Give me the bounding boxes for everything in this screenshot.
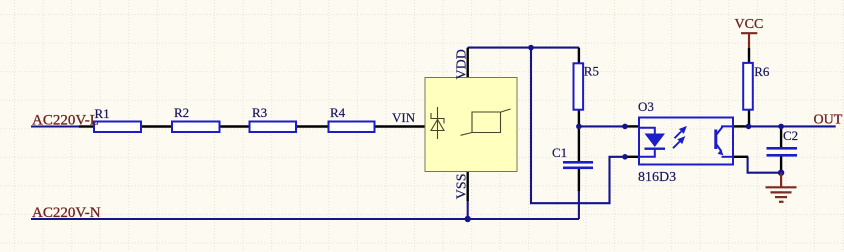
svg-text:C1: C1 bbox=[552, 145, 567, 160]
svg-text:O3: O3 bbox=[638, 99, 654, 114]
svg-text:R2: R2 bbox=[174, 105, 189, 120]
svg-text:AC220V-N: AC220V-N bbox=[32, 205, 101, 221]
svg-text:R1: R1 bbox=[95, 106, 110, 121]
svg-text:C2: C2 bbox=[783, 128, 798, 143]
svg-text:R3: R3 bbox=[252, 105, 267, 120]
svg-text:R5: R5 bbox=[584, 63, 599, 78]
svg-text:R4: R4 bbox=[330, 105, 346, 120]
svg-text:VSS: VSS bbox=[455, 174, 470, 200]
svg-text:R6: R6 bbox=[754, 64, 770, 79]
svg-text:VCC: VCC bbox=[735, 17, 764, 32]
svg-text:AC220V-L: AC220V-L bbox=[32, 113, 99, 129]
svg-text:VDD: VDD bbox=[455, 49, 470, 79]
svg-text:VIN: VIN bbox=[392, 110, 416, 125]
svg-text:816D3: 816D3 bbox=[638, 170, 676, 185]
svg-text:OUT: OUT bbox=[814, 113, 843, 128]
